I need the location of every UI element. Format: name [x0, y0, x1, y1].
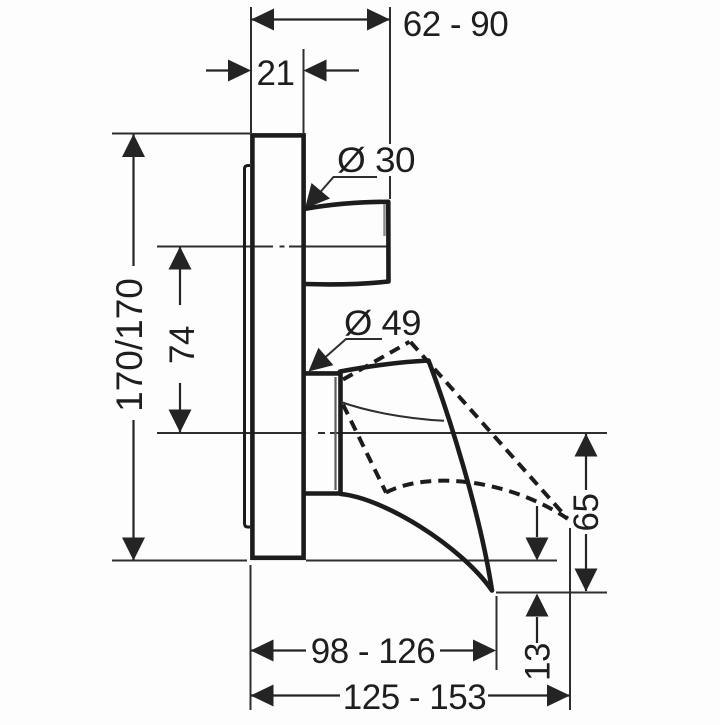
arrow 125-153 right	[547, 685, 570, 707]
extension line x=570 from dashed tip	[569, 528, 571, 710]
leader line for D30	[309, 177, 377, 205]
svg-text:125 - 153: 125 - 153	[343, 678, 486, 717]
dimension 98-126 line	[251, 649, 495, 651]
svg-text:13: 13	[519, 643, 558, 681]
svg-text:Ø 30: Ø 30	[337, 141, 415, 180]
svg-text:98 - 126: 98 - 126	[311, 632, 435, 671]
svg-text:74: 74	[163, 326, 202, 364]
arrow 74 up	[169, 247, 192, 270]
arrow 74 down	[169, 410, 192, 433]
arrow 13 lower (points up)	[526, 594, 549, 617]
dimension 13 line	[536, 506, 538, 643]
dimension 21 tails	[206, 69, 359, 71]
concealed body behind plate	[245, 166, 251, 528]
dashed rotated near base	[343, 405, 386, 493]
arrow 21 left	[228, 60, 251, 82]
extension line bottom left y=560.5	[112, 560, 247, 562]
leader line for D49	[312, 339, 382, 369]
extension line x=496.5 from spout tip	[496, 596, 498, 670]
centre axis handle y=246.5	[157, 246, 387, 248]
spout inner curve	[341, 402, 444, 421]
arrow 13 upper (points down)	[526, 538, 549, 561]
arrow 65 up	[575, 434, 598, 457]
centre axis spout y=433	[157, 432, 607, 434]
extension line x=303.5 for 21	[303, 49, 305, 133]
arrow 98-126 left	[251, 640, 274, 662]
handle knob outline	[305, 202, 389, 285]
arrow 21 right	[304, 60, 327, 82]
extension line top y=133.5 for 170/170	[112, 133, 250, 135]
extension line bottom right y=560.5	[306, 560, 557, 562]
arrow 98-126 right	[473, 640, 496, 662]
wall plate	[252, 135, 303, 557]
leader arrow D30	[305, 183, 330, 209]
dimension 74 line	[179, 247, 181, 432]
dimension 125-153 line	[251, 694, 571, 696]
arrow 65 down	[575, 569, 598, 592]
arrow 62-90 right	[367, 9, 390, 31]
svg-text:65: 65	[567, 494, 606, 532]
arrow 170/170 down	[122, 538, 145, 561]
spout base shade	[334, 377, 336, 490]
dimension 65 line	[585, 434, 587, 591]
extension line left x=251	[250, 7, 252, 133]
svg-text:170/170: 170/170	[109, 278, 150, 412]
dashed rotated top-left	[343, 342, 410, 380]
extension line y=592.5 spout tip level	[496, 592, 607, 594]
extension line x=250.5 below plate	[250, 565, 252, 710]
spout base bottom edge	[304, 491, 341, 496]
spout left edge	[338, 372, 343, 495]
handle inner shade	[383, 204, 386, 236]
dashed rotated right edge	[411, 342, 568, 519]
spout outline	[340, 361, 492, 591]
arrow 125-153 left	[251, 685, 274, 707]
leader arrow D49	[309, 348, 334, 372]
extension line right x=390	[389, 7, 391, 199]
svg-text:Ø 49: Ø 49	[344, 304, 421, 343]
svg-text:21: 21	[257, 54, 295, 93]
svg-text:62 - 90: 62 - 90	[403, 5, 508, 44]
spout base top edge	[304, 371, 339, 376]
dimension 62-90 line	[251, 18, 390, 20]
dashed rotated underside	[386, 481, 568, 519]
arrow 170/170 up	[122, 134, 145, 157]
arrow 62-90 left	[251, 9, 274, 31]
dimension 170/170 line	[132, 134, 134, 560]
